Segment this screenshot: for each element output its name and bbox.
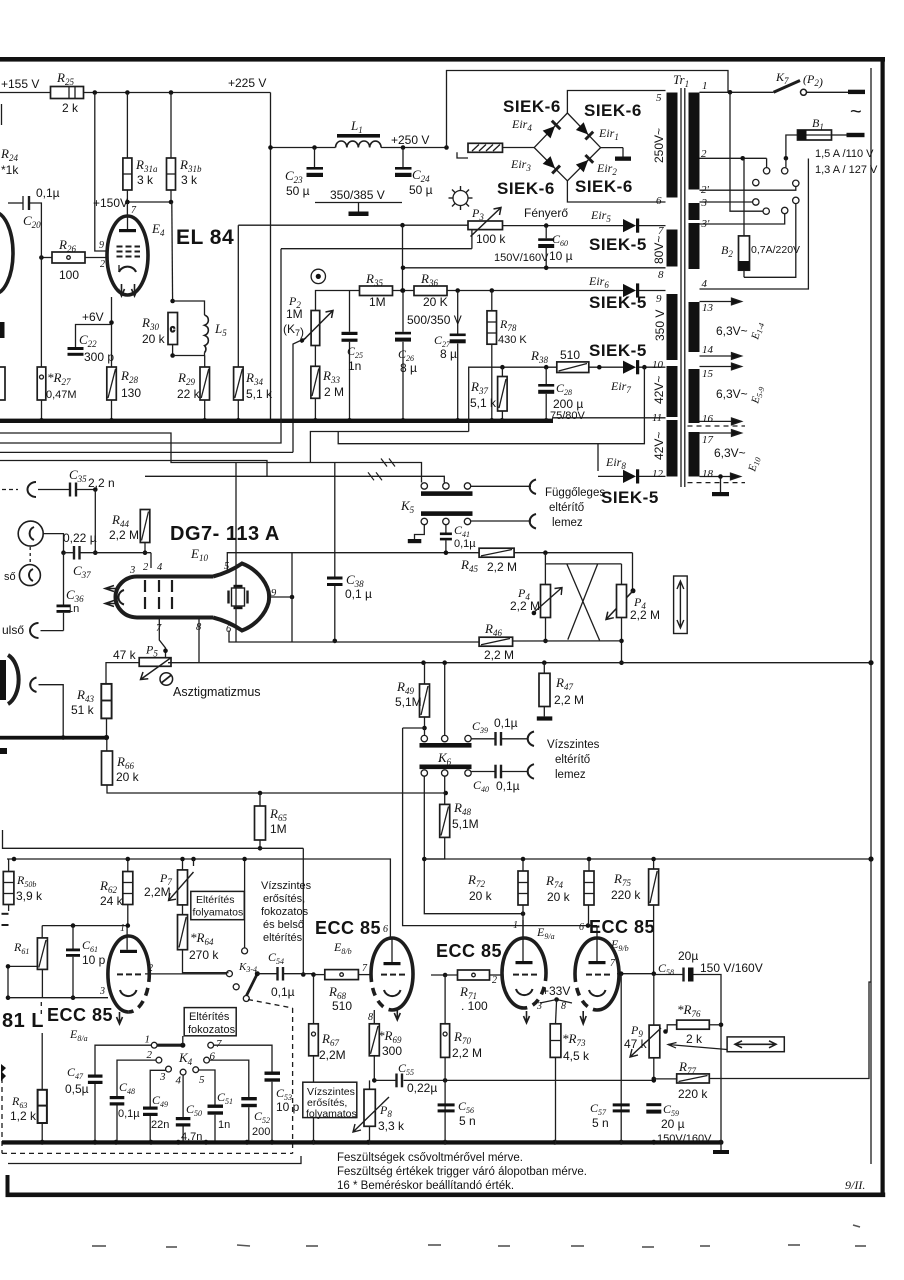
svg-text:eltérítő: eltérítő bbox=[555, 754, 590, 766]
svg-text:ECC 85: ECC 85 bbox=[47, 1005, 113, 1025]
page-edge dashes under R50b bbox=[2, 913, 9, 915]
svg-text:R63: R63 bbox=[11, 1094, 27, 1110]
test point symbol bbox=[311, 269, 325, 283]
svg-text:R50b: R50b bbox=[16, 873, 36, 889]
svg-text:5: 5 bbox=[199, 1074, 205, 1086]
svg-text:*R27: *R27 bbox=[47, 370, 71, 387]
K6 contacts upper bbox=[421, 735, 427, 741]
svg-text:9/II.: 9/II. bbox=[845, 1178, 865, 1192]
svg-text:430 K: 430 K bbox=[498, 334, 527, 346]
wire bundle lineD bbox=[0, 461, 267, 477]
svg-text:2: 2 bbox=[492, 975, 497, 986]
vertical deflection adjust box bbox=[674, 576, 688, 634]
wire riser to pin6 net bbox=[235, 463, 237, 643]
svg-text:C23: C23 bbox=[285, 168, 303, 185]
wire +225V rail bbox=[84, 92, 271, 94]
box Eltérítés folyamatos bbox=[191, 891, 245, 919]
svg-text:R65: R65 bbox=[269, 806, 287, 823]
transformer core bbox=[680, 88, 682, 487]
svg-text:~: ~ bbox=[850, 101, 862, 123]
svg-text:75/80V: 75/80V bbox=[550, 410, 586, 422]
svg-text:C35: C35 bbox=[69, 467, 87, 484]
wire K6 lower-left contact riser bbox=[424, 776, 523, 914]
inductor L1 bbox=[337, 134, 380, 138]
transformer heater 17-18 (bar) bbox=[689, 432, 700, 477]
svg-text:350/385 V: 350/385 V bbox=[330, 188, 385, 202]
svg-text:20 k: 20 k bbox=[142, 332, 166, 346]
svg-text:Eir1: Eir1 bbox=[598, 126, 619, 142]
svg-text:R46: R46 bbox=[484, 621, 502, 638]
svg-text:E10: E10 bbox=[190, 546, 208, 563]
svg-text:R75: R75 bbox=[613, 871, 631, 888]
svg-text:ső: ső bbox=[4, 571, 16, 583]
svg-text:C57: C57 bbox=[590, 1101, 607, 1117]
svg-text:R33: R33 bbox=[322, 368, 340, 385]
svg-text:5 n: 5 n bbox=[592, 1116, 609, 1130]
heater arrow pin18 + ground bbox=[700, 473, 741, 480]
svg-text:17: 17 bbox=[702, 434, 714, 446]
svg-text:SIEK-6: SIEK-6 bbox=[575, 177, 633, 196]
transformer winding 350V (bar) bbox=[667, 294, 678, 360]
wire +6V node bbox=[111, 297, 113, 367]
wire C35 node down bbox=[94, 490, 96, 553]
tube ECC85 E9/a bbox=[502, 938, 546, 1008]
resistor R38 bbox=[557, 362, 589, 373]
svg-text:C20: C20 bbox=[23, 213, 41, 230]
svg-text:R29: R29 bbox=[177, 370, 195, 387]
svg-text:eltérítő: eltérítő bbox=[549, 502, 584, 514]
capacitor C48 bbox=[117, 1060, 156, 1096]
heater arrow pin13 bbox=[700, 298, 742, 305]
svg-text:13: 13 bbox=[702, 302, 714, 314]
svg-text:K4: K4 bbox=[178, 1050, 193, 1067]
svg-text:lemez: lemez bbox=[552, 517, 583, 529]
CRT beam arrows bbox=[105, 586, 117, 592]
dashed box vertical bbox=[292, 1008, 294, 1153]
resistor R29 bbox=[200, 367, 210, 400]
svg-text:6: 6 bbox=[383, 924, 388, 935]
svg-text:20 k: 20 k bbox=[116, 770, 140, 784]
CRT grid electrodes bbox=[145, 580, 172, 609]
wire Eir7 cathode to 42V return bbox=[598, 367, 644, 471]
svg-text:0,1µ: 0,1µ bbox=[118, 1108, 140, 1120]
svg-text:lemez: lemez bbox=[555, 769, 586, 781]
svg-text:*1k: *1k bbox=[1, 163, 19, 177]
svg-text:3 k: 3 k bbox=[137, 173, 154, 187]
svg-text:B2: B2 bbox=[721, 243, 733, 259]
svg-text:*R64: *R64 bbox=[190, 930, 214, 947]
ink mark left edge 322 bbox=[0, 322, 5, 338]
resistor R44 bbox=[140, 510, 150, 543]
svg-text:50 µ: 50 µ bbox=[286, 184, 310, 198]
capacitor C47 bbox=[95, 1045, 151, 1074]
resistor R64 bbox=[182, 905, 184, 915]
svg-text:SIEK-5: SIEK-5 bbox=[589, 293, 647, 312]
svg-text:R35: R35 bbox=[365, 271, 383, 288]
long arrow to P9 wiper bbox=[668, 1043, 727, 1050]
svg-text:2,2 M: 2,2 M bbox=[484, 648, 514, 662]
svg-text:R25: R25 bbox=[56, 70, 74, 87]
wire +155V to R25 bbox=[0, 92, 51, 94]
wire P2 wiper bbox=[293, 338, 306, 452]
dashed link K3-4 to K4 box bbox=[248, 1000, 293, 1009]
wire anode pin7 EL84 bbox=[126, 202, 128, 217]
svg-text:22 k: 22 k bbox=[177, 387, 201, 401]
svg-text:2: 2 bbox=[100, 259, 105, 270]
wire R35/R36 line y290.5 bbox=[316, 291, 360, 311]
capacitor C26 bbox=[402, 291, 404, 332]
svg-text:7: 7 bbox=[131, 205, 137, 216]
wire pin9 riser bbox=[291, 553, 293, 642]
svg-text:C41: C41 bbox=[454, 523, 470, 539]
resistor R50b (left edge) bbox=[3, 872, 14, 905]
potentiometer P4 left bbox=[541, 585, 551, 618]
svg-text:SIEK-5: SIEK-5 bbox=[589, 341, 647, 360]
diode Eir2 bbox=[576, 160, 588, 172]
svg-text:130: 130 bbox=[121, 386, 141, 400]
capacitor C37 bbox=[64, 552, 75, 554]
svg-text:C25: C25 bbox=[347, 344, 363, 360]
svg-text:7: 7 bbox=[156, 623, 162, 634]
wire input1 to C37 bbox=[43, 534, 63, 553]
bridge diamond wires bbox=[534, 113, 600, 181]
svg-text:2,2 M: 2,2 M bbox=[630, 608, 660, 622]
svg-text:5,1M: 5,1M bbox=[452, 817, 479, 831]
svg-text:R67: R67 bbox=[321, 1031, 339, 1048]
wire K6 feed from rail bbox=[444, 663, 446, 736]
svg-text:8: 8 bbox=[196, 622, 202, 633]
resistor *R27 bbox=[37, 367, 46, 400]
ink mark left edge bbox=[0, 748, 7, 754]
resistor R43 bbox=[101, 684, 111, 719]
screw adjust symbol bbox=[160, 673, 173, 686]
svg-text:5,1 k: 5,1 k bbox=[246, 387, 273, 401]
capacitor C51 bbox=[199, 1070, 215, 1105]
svg-text:5: 5 bbox=[656, 92, 662, 104]
svg-text:42V~: 42V~ bbox=[652, 432, 666, 460]
wire bridge bottom to Tr pin6 bbox=[567, 181, 665, 202]
svg-text:0,22 µ: 0,22 µ bbox=[63, 531, 97, 545]
svg-text:E1-4: E1-4 bbox=[749, 321, 766, 342]
svg-text:P8: P8 bbox=[379, 1103, 392, 1119]
svg-text:(P2): (P2) bbox=[803, 72, 823, 89]
heavy bus stub left bbox=[0, 736, 107, 740]
svg-text:5: 5 bbox=[224, 561, 229, 572]
svg-text:E4: E4 bbox=[151, 221, 165, 238]
wire K5 upper-right to plate coupler bbox=[471, 485, 531, 487]
svg-text:200: 200 bbox=[252, 1126, 270, 1138]
wire top feed to bridge bbox=[447, 71, 729, 148]
tube ECC85 E9/b bbox=[575, 938, 619, 1010]
cathode arrow tube4 bbox=[580, 1011, 586, 1024]
wire bundle lineA bbox=[0, 433, 422, 483]
svg-text:K6: K6 bbox=[437, 750, 452, 767]
svg-text:0,1µ: 0,1µ bbox=[36, 186, 60, 200]
capacitor C24 bbox=[402, 148, 404, 168]
svg-text:4,7n: 4,7n bbox=[181, 1131, 202, 1143]
transformer winding 42V~ b (bar) bbox=[667, 420, 678, 477]
svg-text:6,3V~: 6,3V~ bbox=[714, 446, 746, 460]
selector box outline bbox=[700, 159, 809, 290]
svg-text:2,2M: 2,2M bbox=[319, 1048, 346, 1062]
svg-text:R70: R70 bbox=[453, 1029, 471, 1046]
hatch ticks on K5 feed wires bbox=[368, 459, 395, 481]
potentiometer P5 bbox=[106, 663, 139, 684]
svg-text:1: 1 bbox=[120, 923, 125, 934]
svg-text:*R76: *R76 bbox=[677, 1002, 701, 1019]
mains terminal bar 2 bbox=[847, 133, 865, 137]
capacitor C61 bbox=[72, 926, 74, 949]
resistor R46 bbox=[479, 637, 512, 646]
svg-text:E10: E10 bbox=[746, 455, 763, 474]
svg-text:Vízszintes: Vízszintes bbox=[261, 880, 312, 892]
svg-text:R45: R45 bbox=[460, 557, 478, 574]
svg-text:7: 7 bbox=[216, 1038, 222, 1050]
svg-text:Eir7: Eir7 bbox=[610, 379, 631, 395]
svg-text:Tr1: Tr1 bbox=[673, 72, 689, 89]
svg-text:0,5µ: 0,5µ bbox=[65, 1082, 89, 1096]
svg-text:510: 510 bbox=[560, 348, 580, 362]
K5 contacts lower bbox=[421, 518, 427, 524]
svg-text:250V~: 250V~ bbox=[652, 128, 666, 163]
svg-text:2,2 M: 2,2 M bbox=[510, 599, 540, 613]
svg-text:47 k: 47 k bbox=[113, 648, 137, 662]
capacitor C56 bbox=[438, 1103, 455, 1106]
svg-text:R78: R78 bbox=[499, 317, 517, 333]
wire pin8 return line y267.8 bbox=[403, 267, 666, 269]
CRT pin5 wire bbox=[227, 553, 479, 570]
svg-text:12: 12 bbox=[652, 468, 664, 480]
wire B2 bottom bbox=[744, 204, 796, 278]
wire P4 cross X bbox=[567, 564, 600, 641]
svg-text:7: 7 bbox=[658, 225, 664, 237]
svg-text:E5-9: E5-9 bbox=[749, 385, 766, 406]
wire K5 lower-right to plate coupler bbox=[471, 520, 531, 522]
wire y1080.4 C55 line bbox=[374, 1079, 396, 1081]
lamp symbol bbox=[453, 191, 468, 206]
resistor (surge, hatched) bbox=[468, 143, 503, 152]
svg-text:10: 10 bbox=[652, 359, 664, 371]
switch K4 contacts bbox=[151, 1042, 157, 1048]
CRT pin6 wire bbox=[229, 631, 292, 643]
svg-text:4: 4 bbox=[702, 278, 708, 290]
svg-text:C61: C61 bbox=[82, 938, 98, 954]
svg-text:1n: 1n bbox=[67, 603, 79, 615]
svg-text:3: 3 bbox=[99, 986, 105, 997]
svg-text:Asztigmatizmus: Asztigmatizmus bbox=[173, 685, 261, 699]
svg-text:R49: R49 bbox=[396, 679, 414, 696]
cathode arrows EL84 bbox=[119, 284, 125, 296]
svg-text:R72: R72 bbox=[467, 872, 485, 889]
tube EL84 E4 bbox=[107, 216, 148, 295]
svg-text:200 µ: 200 µ bbox=[553, 397, 583, 411]
resistor R61 bbox=[41, 926, 43, 938]
capacitor C60 bbox=[545, 226, 547, 239]
svg-text:SIEK-6: SIEK-6 bbox=[503, 97, 561, 116]
ground 350/385V bbox=[315, 202, 402, 204]
svg-text:Eltérítés: Eltérítés bbox=[196, 894, 235, 906]
connector bracket (left) bbox=[30, 678, 36, 693]
svg-text:2,2 M: 2,2 M bbox=[487, 560, 517, 574]
svg-text:C40: C40 bbox=[473, 778, 489, 794]
resistor R31a bbox=[126, 93, 128, 159]
svg-text:1,3 A / 127 V: 1,3 A / 127 V bbox=[815, 164, 878, 176]
svg-text:3,3 k: 3,3 k bbox=[378, 1119, 405, 1133]
resistor R49 bbox=[424, 663, 426, 684]
capacitor C49 bbox=[150, 1070, 165, 1106]
wire R38 feed line y367.2 bbox=[469, 367, 557, 431]
inductor L5 bbox=[173, 301, 205, 315]
resistor R70 bbox=[443, 973, 448, 978]
svg-text:4: 4 bbox=[157, 562, 163, 573]
svg-text:ECC 85: ECC 85 bbox=[315, 918, 381, 938]
transformer winding 42V~ a (bar) bbox=[667, 366, 678, 417]
svg-text:B1: B1 bbox=[812, 116, 824, 132]
svg-text:10 p: 10 p bbox=[82, 953, 106, 967]
svg-text:eltérítés: eltérítés bbox=[263, 932, 303, 944]
capacitor C52 bbox=[210, 1060, 249, 1097]
svg-text:R36: R36 bbox=[420, 271, 438, 288]
svg-text:E8/b: E8/b bbox=[333, 940, 352, 956]
svg-text:0,47M: 0,47M bbox=[46, 389, 77, 401]
relay K6 bar upper bbox=[420, 743, 472, 748]
tube ECC85 E8/a bbox=[108, 936, 149, 1012]
svg-text:ECC 85: ECC 85 bbox=[436, 941, 502, 961]
CRT pin7 wire bbox=[159, 618, 165, 658]
heater arrow pin16 bbox=[700, 418, 742, 425]
svg-text:5 n: 5 n bbox=[459, 1114, 476, 1128]
capacitor C58 bbox=[654, 974, 683, 976]
wire pin1 drop to selector bbox=[730, 92, 763, 211]
svg-text:R26: R26 bbox=[58, 237, 76, 254]
main ground bus bottom bbox=[2, 1140, 721, 1144]
resistor R37 bbox=[501, 367, 503, 376]
svg-text:20 µ: 20 µ bbox=[661, 1117, 685, 1131]
svg-text:+225 V: +225 V bbox=[228, 76, 266, 90]
inner thin line above bottom border bbox=[8, 1156, 301, 1164]
svg-text:220 k: 220 k bbox=[611, 888, 641, 902]
transformer primary top (bar) bbox=[689, 93, 700, 190]
potentiometer P8 bbox=[369, 1080, 371, 1089]
coupler bracket C40 bbox=[528, 764, 534, 779]
resistor R45 bbox=[479, 548, 514, 557]
resistor R75 bbox=[653, 859, 655, 869]
resistor R26 bbox=[52, 252, 85, 263]
svg-text:150 V/160V: 150 V/160V bbox=[700, 961, 763, 975]
resistor R31b bbox=[170, 93, 172, 159]
svg-text:R24: R24 bbox=[0, 146, 18, 163]
svg-text:C52: C52 bbox=[254, 1109, 270, 1125]
svg-text:8: 8 bbox=[561, 1001, 566, 1012]
mains terminal bar bbox=[848, 90, 865, 94]
potentiometer P4 right wiper arrow bbox=[606, 591, 633, 620]
svg-text:+6V: +6V bbox=[82, 310, 104, 324]
svg-text:42V~: 42V~ bbox=[652, 376, 666, 404]
svg-text:R48: R48 bbox=[453, 800, 471, 817]
border frame right thick bbox=[881, 57, 885, 1197]
resistor R47 bbox=[543, 663, 545, 674]
potentiometer P9 bbox=[653, 974, 655, 1081]
svg-text:Eir8: Eir8 bbox=[605, 455, 626, 471]
wire pin2' bbox=[700, 187, 796, 191]
resistor R35 bbox=[360, 286, 393, 296]
wire grid EL84 pin9 bbox=[95, 93, 109, 252]
wire bridge left node bbox=[503, 147, 535, 149]
border frame bottom bbox=[6, 1193, 886, 1198]
svg-text:C48: C48 bbox=[119, 1080, 135, 1096]
resistor R36 bbox=[414, 286, 447, 296]
svg-text:9: 9 bbox=[656, 293, 662, 305]
svg-text:6,3V~: 6,3V~ bbox=[716, 324, 748, 338]
svg-text:ECC 85: ECC 85 bbox=[589, 917, 655, 937]
K4 blade bbox=[157, 1044, 183, 1047]
svg-text:6: 6 bbox=[656, 195, 662, 207]
svg-text:3: 3 bbox=[159, 1071, 166, 1083]
diode Eir3 bbox=[543, 156, 555, 168]
svg-text:erősítés,: erősítés, bbox=[263, 893, 305, 905]
capacitor C53 bbox=[214, 1045, 272, 1071]
grid wire tube1 to K3-4 bbox=[145, 973, 226, 975]
resistor R66 bbox=[102, 751, 113, 785]
svg-text:C51: C51 bbox=[217, 1090, 233, 1106]
wire P3 wiper line y248.7 bbox=[281, 248, 472, 250]
diode Eir8 bbox=[598, 475, 623, 477]
wire R72 riser bbox=[522, 859, 524, 871]
tube (partial, left page edge) bbox=[0, 212, 13, 294]
potentiometer P4 right bbox=[617, 585, 627, 618]
svg-text:47 k: 47 k bbox=[624, 1037, 648, 1051]
resistor R73 bbox=[556, 1000, 557, 1024]
svg-text:K3-4: K3-4 bbox=[238, 961, 257, 974]
svg-text:2 k: 2 k bbox=[62, 101, 79, 115]
CRT cathode bbox=[118, 590, 124, 605]
wire 42V return extension bbox=[338, 432, 598, 444]
svg-text:R31a: R31a bbox=[135, 157, 158, 174]
wire pin3 bbox=[700, 201, 753, 203]
svg-text:20 K: 20 K bbox=[423, 295, 448, 309]
coupler bracket lower bbox=[530, 514, 536, 529]
svg-text:6: 6 bbox=[579, 922, 584, 933]
svg-text:R34: R34 bbox=[245, 370, 263, 387]
potentiometer P3 bbox=[468, 221, 503, 230]
svg-text:R61: R61 bbox=[13, 940, 29, 956]
svg-text:P3: P3 bbox=[471, 206, 484, 222]
svg-text:1: 1 bbox=[145, 1034, 151, 1046]
svg-text:2: 2 bbox=[143, 562, 149, 573]
resistor R74 bbox=[588, 859, 590, 871]
svg-text:14: 14 bbox=[702, 344, 714, 356]
svg-text:0,1µ: 0,1µ bbox=[494, 716, 518, 730]
relay K5 bar lower bbox=[421, 511, 473, 516]
resistor R30 bbox=[168, 313, 178, 345]
connector circle input 1 bbox=[18, 521, 43, 546]
wire R49 to K6 / grid riser bbox=[403, 727, 425, 729]
relay K6 bar lower bbox=[420, 765, 472, 770]
wire P4 top link bbox=[544, 553, 546, 564]
CRT DG7-113A tube E10 bbox=[116, 577, 214, 618]
svg-text:100: 100 bbox=[59, 268, 79, 282]
svg-text:20 k: 20 k bbox=[547, 890, 571, 904]
svg-text:R30: R30 bbox=[141, 315, 159, 332]
svg-text:1n: 1n bbox=[218, 1119, 230, 1131]
transformer winding 80V~ (bar) bbox=[667, 230, 678, 267]
diode Eir4 bbox=[543, 126, 555, 138]
svg-text:R28: R28 bbox=[120, 368, 138, 385]
box Vizszintes erosites folyamatos bbox=[303, 1082, 357, 1117]
wire R31b to R30 bbox=[171, 202, 174, 301]
svg-text:3: 3 bbox=[536, 1001, 542, 1012]
wire horizontal rail y662.7 bbox=[168, 662, 871, 664]
